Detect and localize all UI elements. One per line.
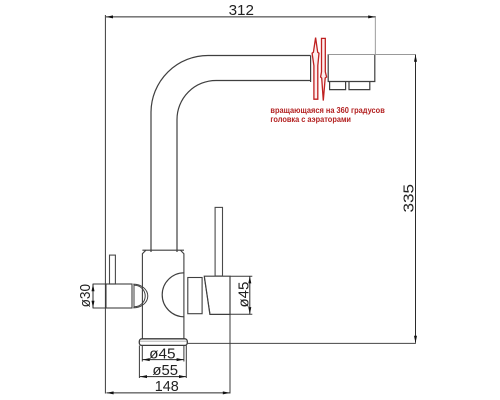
dimension o30 line (92, 284, 94, 308)
cartridge dome arc (162, 273, 184, 317)
dimension 335 extension top (head top edge) (328, 54, 416, 56)
body shoulder (142, 249, 184, 251)
dimension o30 arrow bottom (92, 301, 95, 308)
aerator outlet right (349, 82, 370, 90)
right handle rod (215, 207, 222, 276)
dimension o45 right line (249, 276, 251, 314)
dimension 312 extension line right (374, 16, 376, 54)
body left side with chamfer (142, 250, 146, 339)
dimension 312 line (106, 16, 375, 18)
dimension o45 bottom arrow left (143, 358, 150, 361)
dimension o45 bottom line (143, 359, 184, 361)
svg-text:148: 148 (155, 378, 179, 395)
svg-text:335: 335 (401, 184, 418, 213)
dimension o45 bottom arrow right (177, 358, 184, 361)
dimension 312 arrow right (368, 15, 375, 18)
dimension 148 arrow right (223, 391, 230, 394)
svg-text:головка с аэраторами: головка с аэраторами (270, 114, 351, 124)
base flange (139, 339, 187, 346)
dimension o45 right arrow top (248, 276, 251, 283)
left handle body (106, 284, 132, 308)
svg-text:ø30: ø30 (77, 284, 94, 307)
left handle rod (110, 255, 116, 284)
right handle collar (188, 278, 202, 314)
left handle collar line (133, 284, 135, 307)
dimension o45 right extension lines (230, 276, 252, 314)
spout head body (328, 54, 375, 81)
dimension o55 extension lines (139, 346, 186, 379)
dimension o30 extension lines (93, 284, 107, 308)
dimension 335 line (415, 55, 417, 343)
dimension o45 right arrow bottom (248, 307, 251, 314)
dimension o55 arrow right (179, 375, 186, 378)
svg-text:ø55: ø55 (152, 362, 178, 379)
dimension 335 extension bottom (187, 342, 416, 344)
dimension o55 line (140, 376, 186, 378)
dimension 312 arrow left (106, 15, 113, 18)
right handle body (204, 276, 230, 314)
dimension 312 extension line left (long) (104, 15, 106, 394)
base flange inner line (140, 340, 187, 342)
dimension 148 line (106, 392, 230, 394)
left handle ball outer arc (133, 284, 147, 308)
dimension 148 arrow left (106, 391, 113, 394)
right handle slant line (204, 277, 210, 313)
aerator outlet left (330, 82, 346, 90)
spout end cap (310, 56, 312, 83)
spout inner contour (177, 81, 311, 253)
left handle ball inner arc (135, 285, 146, 306)
spout outer contour (151, 55, 311, 252)
dimension 335 arrow bottom (414, 336, 417, 343)
body right side with chamfer (181, 250, 184, 339)
rotation arrow up (red) (312, 38, 319, 100)
dimension 335 arrow top (414, 55, 417, 62)
dimension o55 arrow left (140, 375, 147, 378)
svg-text:312: 312 (229, 2, 254, 19)
svg-text:ø45: ø45 (236, 282, 253, 308)
rotation arrow down (red) (321, 38, 327, 100)
dimension o30 arrow top (92, 284, 95, 291)
svg-text:ø45: ø45 (149, 345, 175, 362)
dimension 148 extension line right (229, 315, 231, 394)
dimension o45 bottom extension lines (142, 346, 184, 362)
